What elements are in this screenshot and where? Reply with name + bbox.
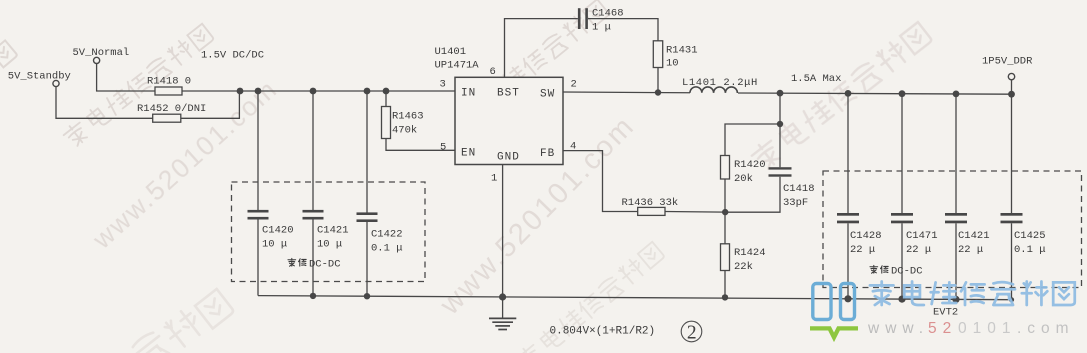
svg-text:C1421: C1421: [958, 230, 990, 242]
svg-text:22 μ: 22 μ: [850, 244, 875, 256]
svg-text:DC-DC: DC-DC: [309, 259, 341, 271]
svg-text:22 μ: 22 μ: [958, 244, 983, 256]
svg-text:R1436 33k: R1436 33k: [622, 197, 679, 209]
svg-text:.com: .com: [1017, 320, 1075, 337]
svg-text:33pF: 33pF: [783, 197, 808, 209]
svg-text:1P5V_DDR: 1P5V_DDR: [982, 56, 1033, 68]
svg-text:470k: 470k: [392, 125, 417, 137]
svg-text:R1463: R1463: [392, 111, 424, 123]
svg-text:L1401 2.2μH: L1401 2.2μH: [682, 77, 758, 89]
svg-text:0.1 μ: 0.1 μ: [371, 243, 403, 255]
svg-text:UP1471A: UP1471A: [435, 60, 480, 72]
svg-text:10 μ: 10 μ: [317, 239, 342, 251]
svg-text:www.: www.: [867, 320, 929, 337]
svg-text:22k: 22k: [734, 261, 753, 273]
svg-text:R1452 0/DNI: R1452 0/DNI: [137, 103, 206, 115]
svg-text:DC-DC: DC-DC: [891, 266, 923, 278]
svg-text:SW: SW: [540, 89, 555, 101]
svg-text:C1428: C1428: [850, 230, 882, 242]
svg-text:10 μ: 10 μ: [262, 239, 287, 251]
svg-text:1: 1: [491, 173, 497, 185]
svg-text:6: 6: [490, 66, 496, 78]
svg-text:2: 2: [571, 79, 577, 91]
svg-text:10: 10: [666, 58, 679, 70]
svg-text:C1421: C1421: [317, 225, 349, 237]
svg-text:5V_Normal: 5V_Normal: [73, 47, 130, 59]
svg-text:C1418: C1418: [783, 183, 815, 195]
svg-text:BST: BST: [497, 88, 520, 100]
svg-text:5V_Standby: 5V_Standby: [8, 70, 71, 82]
svg-text:U1401: U1401: [435, 46, 467, 58]
svg-text:C1422: C1422: [371, 229, 403, 241]
svg-text:3: 3: [440, 79, 446, 91]
svg-text:22 μ: 22 μ: [906, 244, 931, 256]
svg-text:52: 52: [928, 320, 957, 337]
svg-text:4: 4: [570, 141, 576, 153]
svg-text:C1425: C1425: [1014, 230, 1046, 242]
svg-text:EN: EN: [461, 148, 476, 160]
svg-text:2: 2: [687, 323, 697, 344]
svg-text:20k: 20k: [734, 173, 753, 185]
svg-text:0.1 μ: 0.1 μ: [1014, 244, 1046, 256]
svg-text:www.520101.com: www.520101.com: [86, 73, 283, 255]
svg-text:C1420: C1420: [262, 225, 294, 237]
svg-text:R1418 0: R1418 0: [147, 76, 191, 88]
svg-text:IN: IN: [461, 88, 476, 100]
svg-text:R1420: R1420: [734, 159, 766, 171]
svg-text:1 μ: 1 μ: [592, 21, 611, 33]
svg-text:1.5A Max: 1.5A Max: [791, 73, 841, 85]
svg-text:C1468: C1468: [592, 7, 624, 19]
svg-text:GND: GND: [497, 152, 520, 164]
svg-text:EVT2: EVT2: [933, 307, 958, 319]
svg-text:C1471: C1471: [906, 230, 938, 242]
svg-text:FB: FB: [540, 148, 555, 160]
svg-text:5: 5: [440, 142, 446, 154]
svg-text:R1431: R1431: [666, 44, 698, 56]
svg-text:0.804V×(1+R1/R2): 0.804V×(1+R1/R2): [550, 326, 656, 338]
svg-text:0101: 0101: [958, 320, 1016, 337]
svg-text:1.5V DC/DC: 1.5V DC/DC: [201, 50, 264, 62]
svg-text:R1424: R1424: [734, 247, 766, 259]
